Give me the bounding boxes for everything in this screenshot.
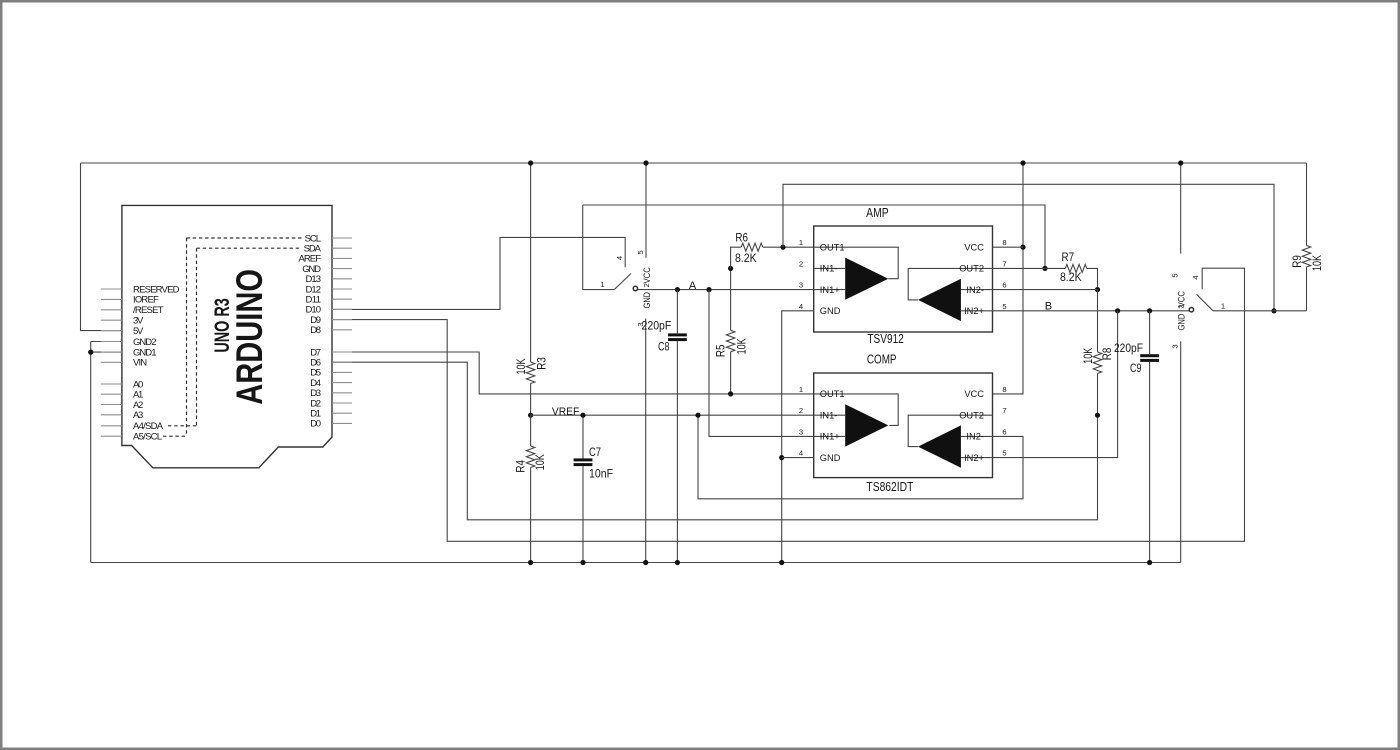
wire R3 branch from rail (530, 163, 532, 362)
svg-text:8: 8 (1002, 385, 1006, 394)
svg-text:5: 5 (636, 250, 645, 254)
SW1 pin 5 stub (645, 163, 647, 258)
svg-text:6: 6 (1002, 427, 1006, 436)
svg-text:IN2-: IN2- (966, 432, 984, 442)
svg-text:VIN: VIN (133, 358, 147, 369)
svg-text:1: 1 (1221, 302, 1225, 311)
node GND1 junction (88, 350, 93, 355)
resistor R9 (1306, 163, 1308, 246)
wire COMP pin6 loop to VREF (698, 415, 1023, 499)
svg-text:GND: GND (820, 453, 841, 463)
svg-text:COMP: COMP (867, 353, 897, 367)
svg-text:OUT2: OUT2 (959, 410, 984, 420)
svg-text:RESERVED: RESERVED (133, 284, 180, 295)
svg-text:5: 5 (1002, 302, 1006, 311)
U1 internal amp B (908, 268, 992, 300)
svg-text:R8: R8 (1100, 347, 1114, 360)
U2 internal comp A (814, 394, 899, 426)
U1 internal amp A (814, 247, 899, 279)
svg-text:R7: R7 (1062, 250, 1075, 264)
svg-text:VCC: VCC (964, 389, 984, 399)
svg-text:4: 4 (799, 302, 803, 311)
svg-text:2: 2 (799, 259, 803, 268)
svg-text:VCC: VCC (964, 242, 984, 252)
svg-text:B: B (1045, 301, 1052, 313)
svg-text:IN2+: IN2+ (964, 306, 984, 316)
svg-text:7: 7 (1002, 406, 1006, 415)
svg-text:220pF: 220pF (642, 318, 672, 332)
svg-text:2: 2 (642, 283, 651, 287)
svg-text:A4/SDA: A4/SDA (133, 421, 164, 432)
svg-text:3: 3 (799, 281, 803, 290)
svg-text:GND2: GND2 (133, 337, 157, 348)
U2 internal comp B (908, 415, 992, 446)
wire GND bottom rail (91, 562, 1181, 564)
svg-text:1: 1 (799, 385, 803, 394)
wire D6 to COMP pin7 via R8 bottom (332, 362, 1098, 520)
svg-text:IN1-: IN1- (820, 264, 838, 274)
wire B down to COMP pin5 (993, 311, 1118, 458)
capacitor C9 (1149, 311, 1151, 354)
svg-text:D0: D0 (310, 419, 321, 430)
resistor R7 (feedback amp2) (993, 267, 1066, 269)
wire 5V to rail (left loop) (81, 163, 122, 331)
wire node B : AMP pin5 to SW2 (993, 310, 1190, 312)
svg-text:IN1+: IN1+ (820, 285, 840, 295)
svg-text:C8: C8 (658, 340, 670, 354)
svg-text:UNO R3: UNO R3 (211, 298, 234, 353)
SW1 throw contact circle (633, 286, 637, 290)
svg-text:3: 3 (1171, 344, 1180, 348)
svg-text:GND: GND (820, 306, 841, 316)
svg-text:R9: R9 (1290, 255, 1304, 268)
SW2 pin 5 stub (1180, 163, 1182, 254)
svg-text:IOREF: IOREF (133, 295, 159, 306)
op-amp IC U2 COMP box (814, 373, 993, 478)
capacitor C8 (676, 290, 678, 334)
wire D7 to COMP pin1 (332, 352, 814, 394)
svg-text:1: 1 (600, 280, 604, 289)
resistor R6 (feedback amp1) (731, 247, 741, 268)
wire AMP pin8 VCC from rail down to COMP pin8 (993, 163, 1024, 394)
svg-text:220pF: 220pF (1114, 341, 1143, 355)
Arduino I2C dashed links (187, 238, 197, 436)
svg-text:VREF: VREF (552, 406, 580, 418)
svg-text:2: 2 (799, 406, 803, 415)
svg-text:IN2-: IN2- (966, 285, 984, 295)
svg-text:5: 5 (1171, 273, 1180, 277)
svg-text:VCC: VCC (642, 267, 652, 284)
svg-text:8.2K: 8.2K (1060, 270, 1082, 284)
svg-text:8: 8 (1002, 238, 1006, 247)
wire GND2/GND1 down left (91, 342, 122, 563)
svg-text:10K: 10K (1310, 255, 1324, 271)
svg-text:A: A (689, 280, 697, 292)
SW1 pin 3 wire to GND rail (645, 319, 647, 563)
wire node A to COMP pin3 (709, 290, 814, 437)
svg-text:IN1+: IN1+ (820, 432, 840, 442)
svg-text:10K: 10K (1081, 348, 1095, 364)
wire D9 to SW2 pin4 (332, 268, 1245, 541)
svg-text:8.2K: 8.2K (735, 251, 757, 265)
SW1 pin 1 wire and lever (583, 205, 615, 290)
wire VREF to COMP pin2 (531, 414, 814, 416)
svg-text:4: 4 (615, 256, 624, 260)
svg-text:1: 1 (799, 238, 803, 247)
resistor R8 (1097, 290, 1099, 352)
svg-text:D8: D8 (310, 325, 321, 336)
svg-text:ARDUINO: ARDUINO (229, 269, 270, 405)
svg-text:10K: 10K (514, 359, 528, 375)
svg-text:4: 4 (1191, 275, 1200, 279)
resistor R4 (530, 415, 532, 446)
svg-text:10nF: 10nF (589, 466, 613, 480)
node A (675, 287, 680, 292)
svg-text:10K: 10K (533, 454, 547, 470)
svg-text:GND: GND (642, 292, 652, 309)
svg-text:5V: 5V (133, 326, 144, 337)
svg-text:7: 7 (1002, 259, 1006, 268)
Arduino right pin stubs (332, 238, 352, 423)
node VREF junction (528, 413, 533, 418)
wire AMP pin6 (993, 289, 1098, 291)
svg-text:4: 4 (799, 449, 803, 458)
svg-text:IN2+: IN2+ (964, 453, 984, 463)
svg-text:OUT1: OUT1 (820, 389, 845, 399)
svg-text:A3: A3 (133, 410, 143, 421)
op-amp IC U1 AMP box (814, 226, 993, 332)
svg-text:TSV912: TSV912 (867, 332, 903, 346)
wire node A to AMP pin3 (638, 289, 814, 291)
svg-text:3: 3 (799, 427, 803, 436)
svg-text:C9: C9 (1130, 361, 1142, 375)
Arduino UNO R3 module outline (122, 205, 332, 467)
wire AMP pin4 GND down through COMP pin4 to rail (782, 311, 814, 563)
svg-text:5: 5 (1002, 449, 1006, 458)
svg-text:10K: 10K (734, 338, 748, 354)
wire VCC top rail (81, 162, 1307, 164)
svg-text:GND: GND (1177, 314, 1187, 331)
svg-text:IN1-: IN1- (820, 410, 838, 420)
svg-text:6: 6 (1002, 281, 1006, 290)
resistor R5 (730, 268, 732, 330)
svg-text:3V: 3V (133, 316, 144, 327)
SW2 pin 3 wire to GND rail (1180, 341, 1182, 562)
capacitor C7 (582, 415, 584, 458)
wire D10 to SW1 pin4 (332, 237, 625, 309)
svg-text:OUT2: OUT2 (959, 264, 984, 274)
wire AMP OUT2 loop (y=205) to SW1 pin1 (783, 184, 1274, 310)
svg-text:/RESET: /RESET (133, 305, 164, 316)
SW2 lever and contact (1189, 308, 1193, 312)
resistor R3 (526, 362, 534, 384)
svg-text:AMP: AMP (866, 206, 889, 220)
svg-text:TS862IDT: TS862IDT (866, 480, 913, 494)
svg-text:C7: C7 (589, 445, 601, 459)
svg-text:R3: R3 (535, 357, 549, 370)
svg-text:OUT1: OUT1 (820, 242, 845, 252)
svg-text:2: 2 (1176, 304, 1185, 308)
Arduino left pin stubs (101, 289, 122, 436)
svg-text:R4: R4 (514, 460, 528, 473)
svg-text:A5/SCL: A5/SCL (133, 432, 162, 443)
svg-text:R5: R5 (714, 344, 728, 357)
svg-text:R6: R6 (735, 230, 748, 244)
